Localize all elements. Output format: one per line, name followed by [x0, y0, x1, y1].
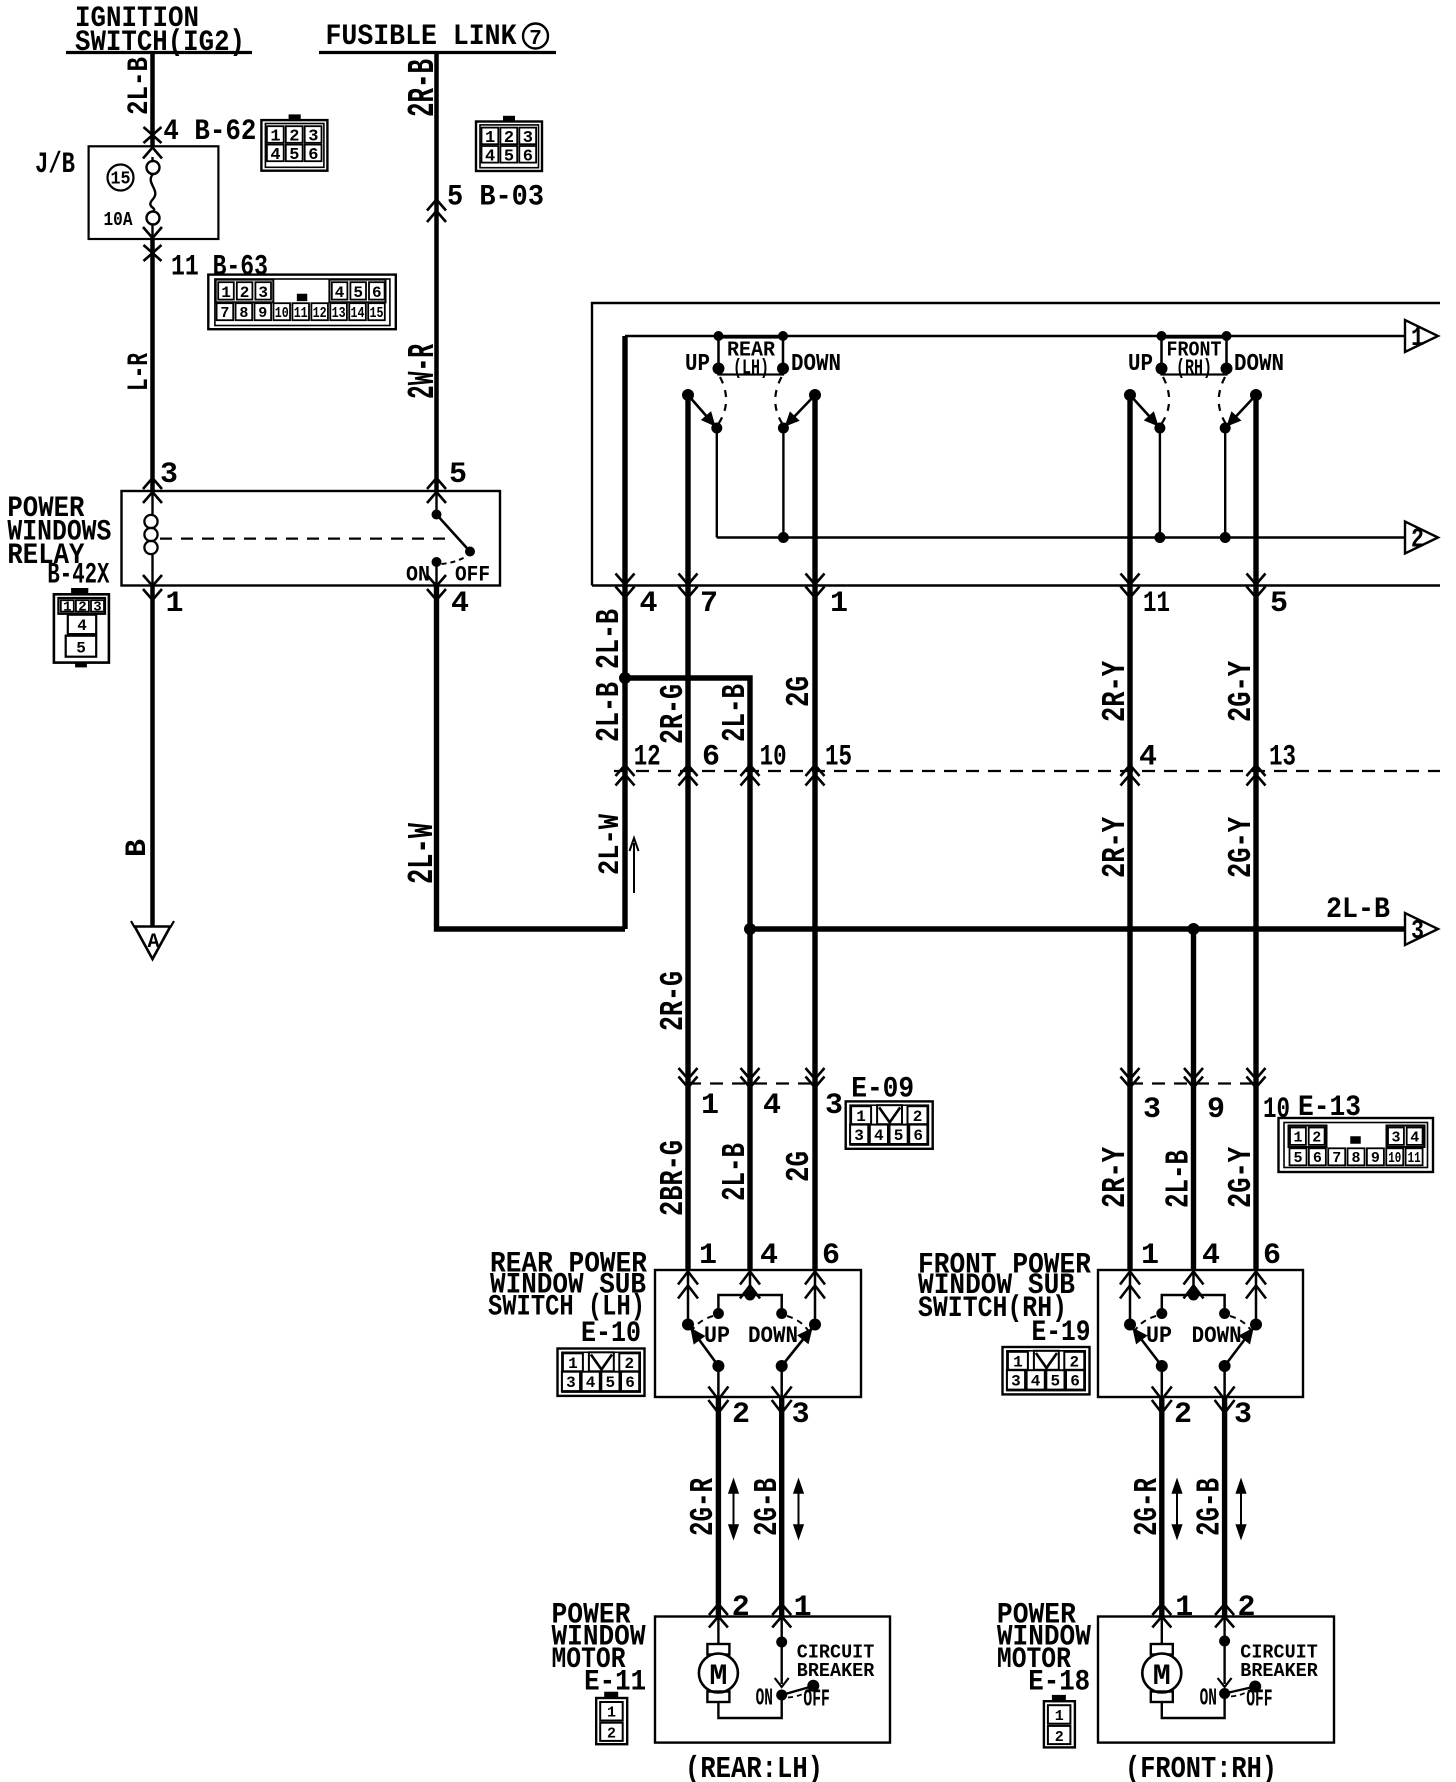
svg-text:2R-Y: 2R-Y: [1097, 817, 1134, 878]
svg-text:15: 15: [825, 741, 852, 775]
svg-text:5: 5: [605, 1374, 615, 1392]
connector E-09 icon: [846, 1101, 933, 1148]
svg-text:7: 7: [220, 305, 229, 322]
svg-text:6: 6: [1070, 1373, 1080, 1391]
svg-text:3: 3: [1011, 1373, 1021, 1391]
connector E-10 icon: [558, 1349, 645, 1396]
svg-text:2BR-G: 2BR-G: [655, 1140, 692, 1216]
svg-text:1: 1: [701, 1089, 719, 1123]
svg-text:3: 3: [1143, 1093, 1161, 1127]
svg-text:3: 3: [93, 600, 101, 616]
svg-text:1: 1: [1411, 324, 1424, 354]
wire 2W-R: [402, 344, 445, 399]
wire 2R-Y main switch pin11 down: [1127, 395, 1132, 1270]
svg-text:6: 6: [702, 741, 720, 775]
svg-text:4: 4: [1410, 1130, 1419, 1147]
direction arrows LH: [729, 1480, 738, 1538]
svg-text:8: 8: [1352, 1150, 1361, 1167]
svg-text:2R-G: 2R-G: [655, 971, 692, 1031]
motor RH box: [1098, 1617, 1334, 1743]
svg-text:5 B-03: 5 B-03: [447, 181, 544, 215]
svg-text:2L-W: 2L-W: [594, 814, 628, 875]
harness connector pin 6: [679, 741, 721, 786]
motor RH caption: [1125, 1752, 1277, 1782]
svg-text:2: 2: [504, 129, 514, 148]
svg-text:9: 9: [258, 305, 267, 322]
fuse 15 10A: [104, 148, 163, 240]
svg-text:BREAKER: BREAKER: [797, 1660, 875, 1682]
svg-text:B: B: [121, 839, 155, 857]
svg-text:1: 1: [1055, 1708, 1064, 1725]
connector B-42X icon: [54, 589, 109, 667]
svg-text:4: 4: [1139, 741, 1157, 775]
relay internal dashed link: [160, 537, 450, 539]
svg-text:6: 6: [523, 147, 533, 166]
sub switch LH internals: [683, 1270, 821, 1397]
svg-text:2: 2: [624, 1355, 634, 1373]
connector B-63 crossing: [144, 239, 269, 491]
sub switch LH pin 2 bottom: [708, 1387, 750, 1433]
svg-text:3: 3: [854, 1127, 864, 1145]
svg-text:FUSIBLE LINK: FUSIBLE LINK: [326, 20, 517, 54]
connector E-13 icon: [1279, 1118, 1434, 1172]
svg-text:E-18: E-18: [1028, 1665, 1090, 1699]
wire labels below harness connector: [655, 817, 1260, 1208]
svg-text:2: 2: [1174, 1398, 1192, 1432]
connector B-62 icon: [261, 115, 327, 170]
svg-text:1: 1: [856, 1108, 866, 1126]
connector E-09 label: [851, 1073, 914, 1107]
svg-text:J/B: J/B: [35, 148, 75, 182]
svg-text:2L-B: 2L-B: [591, 682, 628, 742]
svg-text:ON: ON: [756, 1686, 773, 1713]
connector E-13 pin 9: [1184, 1068, 1225, 1127]
svg-text:SWITCH(IG2): SWITCH(IG2): [75, 26, 245, 60]
motor RH pin 2: [1215, 1591, 1255, 1628]
svg-text:9: 9: [1207, 1093, 1225, 1127]
power window motor LH label: [552, 1598, 647, 1699]
switch REAR LH UP DOWN labels: [685, 351, 841, 378]
svg-text:5: 5: [1293, 1150, 1302, 1167]
svg-text:1: 1: [699, 1239, 717, 1273]
sub switch LH pin 1: [678, 1239, 717, 1299]
svg-text:3: 3: [1391, 1130, 1400, 1147]
svg-text:9: 9: [1371, 1150, 1380, 1167]
main switch pin 7: [679, 574, 719, 622]
main switch pin 5: [1247, 574, 1289, 622]
relay pin 1: [143, 575, 184, 621]
flow arrow up: [630, 838, 639, 893]
svg-text:2W-R: 2W-R: [402, 344, 445, 399]
svg-text:1: 1: [166, 587, 184, 621]
connector E-09 pin 4: [741, 1068, 782, 1123]
wire 2L-B ignition feed: [123, 53, 157, 147]
svg-text:3: 3: [1234, 1398, 1252, 1432]
svg-text:5: 5: [76, 640, 86, 658]
wire 2L-W / 2L-B relay pin4 to main switch pin4: [402, 336, 625, 929]
svg-text:6: 6: [308, 146, 318, 165]
svg-text:UP: UP: [685, 351, 710, 378]
svg-text:5: 5: [1050, 1373, 1060, 1391]
svg-text:2L-B: 2L-B: [717, 684, 754, 742]
svg-text:2R-B: 2R-B: [402, 59, 445, 117]
harness connector pin 10: [741, 741, 787, 786]
svg-text:1: 1: [485, 129, 495, 148]
svg-text:(RH): (RH): [1176, 358, 1212, 381]
svg-text:2L-B: 2L-B: [123, 57, 157, 115]
switch REAR LH dashed linkages: [718, 377, 782, 424]
wire L-R: [123, 353, 157, 391]
svg-text:(REAR:LH): (REAR:LH): [685, 1752, 823, 1782]
svg-text:1: 1: [830, 587, 848, 621]
svg-text:3: 3: [825, 1089, 843, 1123]
svg-text:DOWN: DOWN: [791, 351, 841, 378]
bus wire to arrow 2: [717, 536, 1404, 539]
svg-text:OFF: OFF: [455, 563, 490, 588]
svg-text:3: 3: [1411, 917, 1424, 947]
svg-text:A: A: [147, 931, 159, 954]
svg-text:2: 2: [1055, 1729, 1064, 1746]
power window motor RH label: [997, 1598, 1091, 1699]
relay coil: [144, 491, 157, 586]
connector E-13 pin 10: [1247, 1068, 1291, 1127]
connector E-09 pin 1: [679, 1068, 720, 1123]
svg-text:2G-Y: 2G-Y: [1223, 1147, 1260, 1208]
svg-text:1: 1: [63, 600, 71, 616]
sub switch LH pin 6: [805, 1239, 840, 1299]
svg-text:2L-W: 2L-W: [402, 823, 443, 884]
relay pin 4: [427, 575, 469, 621]
main switch pin 4: [616, 574, 658, 622]
motor LH pin 2: [709, 1591, 750, 1628]
svg-text:5: 5: [289, 146, 299, 165]
relay B-42X box: [122, 491, 501, 586]
harness connector dashed line: [614, 770, 1440, 772]
sub switch LH box: [655, 1270, 861, 1397]
title FUSIBLE LINK 7: [319, 20, 556, 54]
switch REAR LH label box and fixed contacts: [713, 332, 789, 381]
sub switch RH pin 4: [1184, 1239, 1221, 1299]
svg-text:2L-B: 2L-B: [717, 1143, 754, 1201]
svg-text:2: 2: [78, 600, 86, 616]
svg-text:2G-R: 2G-R: [1129, 1478, 1166, 1536]
svg-text:2R-Y: 2R-Y: [1097, 661, 1134, 722]
sub switch RH pin 3 bottom: [1215, 1387, 1252, 1433]
svg-text:2L-B: 2L-B: [1161, 1150, 1198, 1208]
svg-text:1: 1: [1293, 1130, 1302, 1147]
svg-text:UP: UP: [704, 1323, 730, 1349]
wire 2G-B RH: [1192, 1397, 1229, 1617]
svg-text:M: M: [709, 1660, 727, 1694]
wire labels above sub switches: [655, 1140, 1260, 1216]
wire 2L-B branch to E-13 pin9: [1191, 929, 1196, 1270]
svg-text:1: 1: [794, 1591, 812, 1625]
sub switch RH pin 6: [1246, 1239, 1281, 1299]
svg-text:BREAKER: BREAKER: [1240, 1660, 1318, 1682]
svg-text:M: M: [1153, 1660, 1171, 1694]
svg-text:UP: UP: [1146, 1323, 1172, 1349]
svg-text:3: 3: [258, 284, 268, 302]
svg-text:6: 6: [822, 1239, 840, 1273]
svg-text:1: 1: [1013, 1354, 1023, 1372]
svg-text:4: 4: [1031, 1373, 1041, 1391]
svg-text:8: 8: [239, 305, 248, 322]
wire labels above harness connector: [655, 661, 1260, 744]
svg-text:2: 2: [607, 1726, 616, 1743]
svg-text:E-19: E-19: [1032, 1316, 1091, 1350]
connector E-13 dashed line: [1130, 1082, 1256, 1084]
svg-text:12: 12: [313, 305, 327, 322]
wire 2L-B bus to arrow 3: [745, 893, 1405, 935]
svg-text:DOWN: DOWN: [748, 1323, 798, 1349]
connector E-18 icon: [1044, 1696, 1075, 1747]
svg-text:2G-Y: 2G-Y: [1223, 817, 1260, 878]
svg-text:14: 14: [351, 305, 365, 322]
svg-text:2: 2: [289, 128, 299, 147]
motor LH circuit breaker: [756, 1617, 875, 1714]
relay pin 5: [427, 458, 467, 503]
harness connector pin 15: [806, 741, 853, 786]
svg-text:2G-R: 2G-R: [685, 1478, 722, 1536]
front power window sub switch label: [918, 1249, 1091, 1351]
svg-text:2G-B: 2G-B: [1192, 1478, 1229, 1536]
svg-text:4: 4: [451, 587, 469, 621]
svg-text:2R-Y: 2R-Y: [1097, 1147, 1134, 1208]
motor LH caption: [685, 1752, 823, 1782]
svg-text:B-42X: B-42X: [47, 559, 109, 593]
svg-text:5: 5: [894, 1127, 904, 1145]
sub switch RH pin 1: [1120, 1239, 1159, 1299]
svg-text:2G: 2G: [781, 1151, 818, 1182]
sub switch RH pin 2 bottom: [1152, 1387, 1192, 1433]
svg-text:10: 10: [760, 741, 787, 775]
svg-text:2: 2: [1238, 1591, 1256, 1625]
svg-text:1: 1: [1175, 1591, 1193, 1625]
main switch pin 11: [1121, 574, 1171, 622]
switch FRONT RH moving contacts: [1125, 390, 1262, 543]
ground arrow A: [131, 921, 174, 959]
connector B-03 icon: [476, 117, 542, 171]
svg-text:1: 1: [568, 1355, 578, 1373]
svg-text:5: 5: [449, 458, 467, 492]
motor LH box: [655, 1617, 890, 1743]
svg-text:4: 4: [760, 1239, 778, 1273]
svg-text:4: 4: [77, 617, 87, 635]
svg-text:4: 4: [874, 1127, 884, 1145]
svg-text:2G: 2G: [781, 676, 818, 707]
title IGNITION SWITCH(IG2): [66, 2, 252, 60]
motor RH pin 1: [1152, 1591, 1193, 1628]
svg-text:E-10: E-10: [581, 1317, 641, 1351]
svg-text:4: 4: [335, 284, 345, 302]
svg-text:7: 7: [529, 28, 542, 51]
svg-text:2R-G: 2R-G: [655, 684, 692, 744]
svg-text:5: 5: [1270, 587, 1288, 621]
svg-text:2: 2: [1312, 1130, 1321, 1147]
wire 2G-B LH: [749, 1397, 786, 1617]
svg-text:3: 3: [566, 1374, 576, 1392]
connector B-03 crossing: [427, 181, 544, 223]
svg-text:3: 3: [792, 1398, 810, 1432]
relay pin 3: [143, 458, 178, 503]
relay contact ON/OFF: [406, 491, 490, 588]
switch FRONT RH label box and fixed contacts: [1156, 332, 1232, 381]
power window main switch box: [592, 303, 1440, 586]
wire 2G-R RH: [1129, 1397, 1166, 1617]
connector B-63 icon: [208, 275, 395, 330]
switch FRONT RH dashed linkages: [1161, 377, 1226, 424]
svg-text:2G-Y: 2G-Y: [1223, 661, 1260, 722]
arrow 2: [1405, 522, 1438, 556]
svg-text:5: 5: [353, 284, 363, 302]
sub switch LH pin 3 bottom: [772, 1387, 810, 1433]
svg-text:6: 6: [1313, 1150, 1322, 1167]
svg-text:DOWN: DOWN: [1234, 351, 1284, 378]
connector E-09 pin 3: [806, 1068, 844, 1123]
svg-text:2: 2: [732, 1398, 750, 1432]
svg-text:11: 11: [1408, 1150, 1421, 1167]
svg-text:7: 7: [700, 587, 718, 621]
wire 2G-Y main switch pin5 down: [1253, 395, 1258, 1270]
motor RH symbol M: [1142, 1617, 1224, 1719]
bus wire to arrow 1: [625, 335, 1404, 338]
wire 2R-B: [402, 53, 445, 492]
svg-text:11: 11: [1143, 587, 1170, 621]
svg-text:13: 13: [332, 305, 346, 322]
motor LH pin 1: [772, 1591, 811, 1628]
svg-text:4: 4: [763, 1089, 781, 1123]
svg-text:10: 10: [275, 305, 289, 322]
switch FRONT RH UP DOWN labels: [1128, 351, 1284, 378]
harness connector pin 13: [1247, 741, 1297, 786]
svg-text:DOWN: DOWN: [1192, 1323, 1242, 1349]
svg-text:UP: UP: [1128, 351, 1153, 378]
svg-text:1: 1: [607, 1705, 616, 1722]
svg-text:4: 4: [640, 587, 658, 621]
svg-text:4 B-62: 4 B-62: [163, 115, 256, 149]
svg-text:3: 3: [308, 128, 318, 147]
svg-text:1: 1: [270, 128, 280, 147]
svg-text:4: 4: [270, 146, 280, 165]
svg-text:2: 2: [732, 1591, 750, 1625]
svg-text:4: 4: [485, 147, 495, 166]
svg-text:12: 12: [634, 741, 661, 775]
svg-text:2L-B: 2L-B: [1326, 893, 1390, 927]
svg-text:15: 15: [370, 305, 384, 322]
svg-text:7: 7: [1332, 1150, 1341, 1167]
connector E-19 icon: [1003, 1347, 1090, 1394]
connector E-13 label: [1298, 1091, 1361, 1125]
svg-text:15: 15: [111, 170, 131, 190]
junction block J/B box: [35, 146, 218, 239]
svg-text:ON: ON: [406, 563, 430, 588]
svg-text:6: 6: [625, 1374, 635, 1392]
harness connector pin 4: [1121, 741, 1158, 786]
wire 2L-B labels on riser: [591, 609, 628, 875]
connector B-62 crossing: [144, 115, 257, 149]
svg-text:10: 10: [1388, 1150, 1401, 1167]
wire 2G-R LH: [685, 1397, 722, 1617]
svg-text:ON: ON: [1200, 1686, 1217, 1713]
wire 2L-B branch to pin 10: [620, 673, 751, 1271]
svg-text:2: 2: [1069, 1354, 1079, 1372]
direction arrows RH: [1173, 1480, 1182, 1538]
svg-text:11: 11: [294, 305, 308, 322]
svg-text:2G-B: 2G-B: [749, 1478, 786, 1536]
main switch pin 1: [806, 574, 849, 622]
sub switch RH internals: [1125, 1270, 1262, 1397]
svg-text:2: 2: [1411, 526, 1424, 556]
relay label POWER WINDOWS RELAY B-42X: [7, 492, 111, 593]
motor RH circuit breaker: [1200, 1617, 1319, 1714]
connector E-13 pin 3: [1121, 1068, 1162, 1127]
svg-text:2: 2: [240, 284, 250, 302]
svg-text:L-R: L-R: [123, 353, 157, 391]
svg-text:OFF: OFF: [803, 1687, 829, 1714]
rear power window sub switch label: [488, 1248, 647, 1352]
svg-text:1: 1: [1141, 1239, 1159, 1273]
svg-text:10A: 10A: [104, 209, 133, 231]
svg-text:2L-B: 2L-B: [591, 609, 628, 669]
sub switch RH box: [1098, 1270, 1303, 1397]
harness connector pin 12: [616, 741, 661, 786]
svg-text:3: 3: [523, 129, 533, 148]
wire B to ground: [121, 586, 155, 927]
connector E-09 dashed line: [688, 1082, 815, 1084]
arrow 3: [1405, 913, 1438, 947]
svg-text:5: 5: [504, 147, 514, 166]
svg-text:3: 3: [160, 458, 178, 492]
wire 2G main switch pin1 down: [812, 395, 817, 1270]
svg-text:4: 4: [586, 1374, 596, 1392]
svg-text:6: 6: [1263, 1239, 1281, 1273]
sub switch LH pin 4: [740, 1239, 778, 1299]
wire 2R-G main switch pin7 down: [685, 395, 690, 1270]
svg-text:13: 13: [1269, 741, 1296, 775]
svg-text:(LH): (LH): [733, 358, 769, 381]
svg-text:6: 6: [913, 1127, 923, 1145]
svg-text:6: 6: [372, 284, 382, 302]
motor LH symbol M: [699, 1617, 782, 1719]
svg-text:1: 1: [221, 284, 231, 302]
switch REAR LH moving contacts: [683, 390, 821, 543]
svg-text:4: 4: [1202, 1239, 1220, 1273]
arrow 1: [1405, 320, 1438, 354]
svg-text:OFF: OFF: [1246, 1687, 1272, 1714]
connector E-11 icon: [596, 1693, 627, 1745]
svg-text:2: 2: [913, 1108, 923, 1126]
svg-text:(FRONT:RH): (FRONT:RH): [1125, 1752, 1277, 1782]
